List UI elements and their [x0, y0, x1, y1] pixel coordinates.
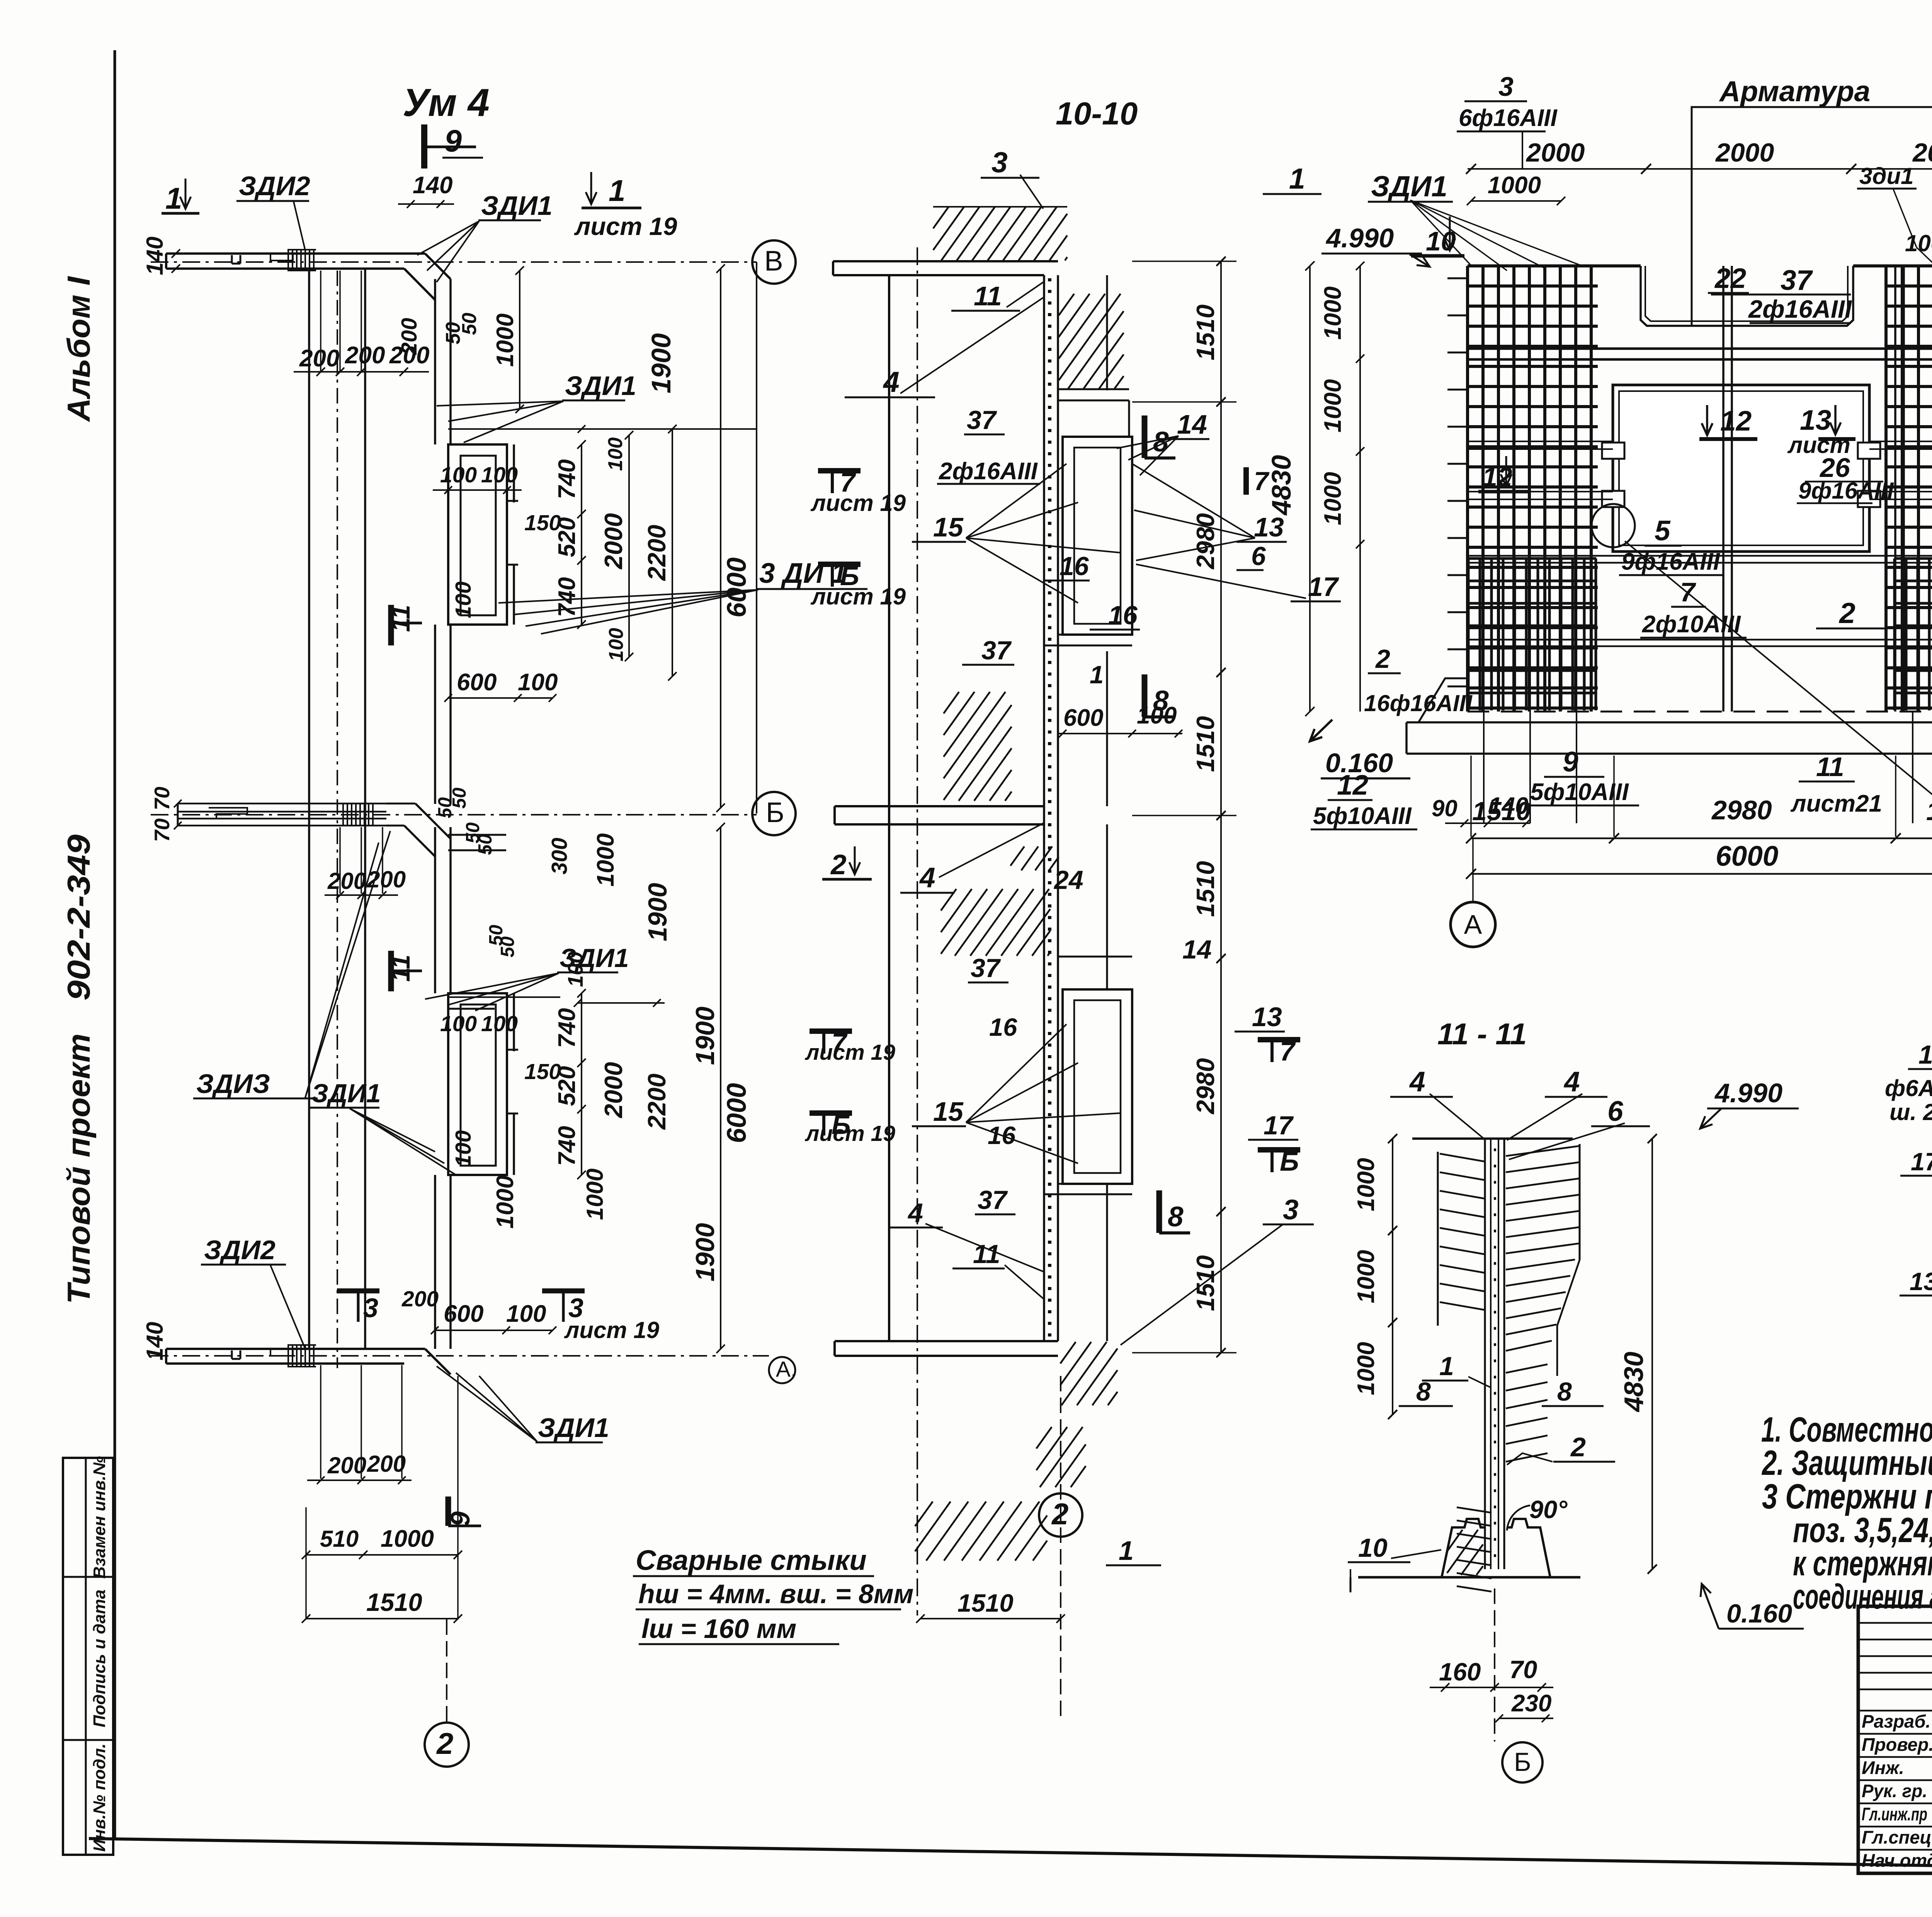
svg-text:2: 2 — [1838, 597, 1855, 629]
svg-text:2000: 2000 — [1715, 138, 1774, 167]
svg-text:ЗДИ1: ЗДИ1 — [481, 191, 553, 221]
svg-text:ЗДИ2: ЗДИ2 — [204, 1235, 276, 1265]
svg-text:100: 100 — [604, 438, 627, 471]
svg-text:ЗДИ2: ЗДИ2 — [239, 171, 310, 201]
svg-text:15: 15 — [933, 1096, 964, 1127]
svg-text:Разраб.: Разраб. — [1862, 1711, 1930, 1731]
svg-text:70: 70 — [150, 818, 174, 842]
svg-text:2ф16АIII: 2ф16АIII — [1748, 295, 1852, 323]
svg-text:100: 100 — [481, 463, 518, 487]
svg-text:16: 16 — [1060, 552, 1089, 581]
svg-text:Провер.: Провер. — [1862, 1734, 1932, 1755]
svg-text:200: 200 — [397, 318, 422, 355]
svg-text:1: 1 — [165, 181, 182, 215]
svg-text:9ф16АIII: 9ф16АIII — [1621, 548, 1721, 575]
svg-text:16: 16 — [988, 1121, 1016, 1149]
svg-text:2200: 2200 — [643, 525, 671, 582]
svg-text:2000: 2000 — [599, 513, 628, 570]
svg-text:7: 7 — [1680, 577, 1696, 607]
svg-text:740: 740 — [554, 577, 580, 617]
svg-text:Б: Б — [1514, 1747, 1531, 1777]
svg-text:14: 14 — [1918, 1040, 1932, 1069]
svg-text:200: 200 — [401, 1287, 439, 1311]
svg-text:hш = 4мм. вш. = 8мм: hш = 4мм. вш. = 8мм — [638, 1579, 913, 1609]
svg-text:100: 100 — [451, 581, 476, 618]
svg-text:лист 19: лист 19 — [810, 490, 906, 516]
svg-text:9: 9 — [444, 124, 462, 158]
svg-text:4: 4 — [883, 366, 900, 398]
svg-text:2: 2 — [1570, 1432, 1586, 1462]
svg-text:1510: 1510 — [1191, 861, 1219, 917]
svg-text:1000: 1000 — [381, 1525, 434, 1552]
svg-text:1: 1 — [1119, 1536, 1134, 1566]
svg-text:2980: 2980 — [1191, 1058, 1219, 1115]
svg-text:соединения арматуры-вязаные.: соединения арматуры-вязаные. — [1793, 1577, 1932, 1616]
svg-text:А: А — [1464, 909, 1482, 940]
svg-text:13: 13 — [1910, 1267, 1932, 1296]
svg-text:2ф16АIII: 2ф16АIII — [939, 458, 1038, 485]
svg-text:100: 100 — [440, 463, 477, 487]
svg-text:4: 4 — [919, 862, 935, 894]
svg-text:100: 100 — [605, 628, 628, 662]
svg-text:4: 4 — [1563, 1066, 1580, 1098]
svg-text:1000: 1000 — [492, 1175, 519, 1229]
svg-text:2. Защитный слой бетона - 20: 2. Защитный слой бетона - 20 мм. — [1761, 1444, 1932, 1483]
svg-text:140: 140 — [413, 172, 452, 199]
svg-text:9: 9 — [445, 1511, 475, 1526]
svg-text:6ф16АIII: 6ф16АIII — [1459, 105, 1558, 131]
svg-text:11: 11 — [1816, 752, 1844, 782]
svg-text:1510: 1510 — [957, 1589, 1014, 1617]
svg-text:2000: 2000 — [1912, 138, 1932, 167]
svg-text:Сварные стыки: Сварные стыки — [636, 1545, 867, 1576]
svg-text:1510: 1510 — [1191, 305, 1219, 361]
svg-text:13: 13 — [1800, 405, 1831, 436]
svg-text:лист 19: лист 19 — [804, 1040, 895, 1065]
svg-text:Подпись и дата: Подпись и дата — [90, 1590, 109, 1728]
svg-text:3ди1: 3ди1 — [1859, 163, 1913, 189]
svg-text:37: 37 — [967, 405, 997, 435]
svg-text:2980: 2980 — [1191, 513, 1219, 570]
svg-text:лист 19: лист 19 — [574, 212, 677, 240]
svg-text:200: 200 — [345, 342, 385, 369]
svg-text:ф6АIII: ф6АIII — [1885, 1075, 1932, 1101]
svg-text:37: 37 — [981, 636, 1012, 665]
svg-text:17: 17 — [1264, 1111, 1294, 1140]
svg-text:1000: 1000 — [1320, 379, 1346, 432]
svg-text:520: 520 — [554, 517, 580, 557]
svg-text:ЗДИ1: ЗДИ1 — [538, 1413, 609, 1443]
svg-text:3: 3 — [1283, 1194, 1299, 1226]
svg-text:1900: 1900 — [643, 883, 672, 941]
svg-text:100: 100 — [481, 1011, 518, 1036]
svg-text:100: 100 — [518, 669, 558, 696]
svg-text:2200: 2200 — [643, 1074, 671, 1130]
svg-text:100: 100 — [451, 1130, 476, 1167]
svg-text:230: 230 — [1511, 1690, 1551, 1717]
svg-text:13: 13 — [1254, 512, 1284, 542]
svg-text:Гл.инж.пр: Гл.инж.пр — [1862, 1804, 1927, 1824]
svg-text:Рук. гр.: Рук. гр. — [1862, 1781, 1927, 1801]
svg-text:24: 24 — [1053, 865, 1083, 895]
svg-text:50: 50 — [449, 788, 470, 809]
svg-text:13: 13 — [1252, 1002, 1282, 1032]
svg-text:50: 50 — [475, 834, 496, 855]
svg-text:2: 2 — [436, 1726, 453, 1760]
svg-text:2: 2 — [830, 849, 847, 880]
svg-text:740: 740 — [554, 1008, 580, 1048]
svg-text:1000: 1000 — [1320, 472, 1346, 525]
svg-text:1900: 1900 — [690, 1223, 720, 1281]
svg-text:ЗДИ1: ЗДИ1 — [311, 1079, 381, 1108]
svg-text:15: 15 — [933, 512, 964, 542]
svg-text:Ум 4: Ум 4 — [403, 81, 490, 124]
svg-text:22: 22 — [1714, 263, 1746, 294]
svg-text:37: 37 — [971, 953, 1001, 983]
svg-text:1000: 1000 — [1320, 286, 1346, 340]
svg-text:520: 520 — [554, 1066, 580, 1106]
svg-text:6000: 6000 — [721, 1083, 752, 1143]
svg-text:12: 12 — [1720, 405, 1752, 437]
svg-text:1000: 1000 — [1353, 1250, 1379, 1303]
svg-text:ш. 200: ш. 200 — [1889, 1099, 1932, 1125]
svg-text:1900: 1900 — [646, 333, 676, 393]
svg-text:В: В — [764, 245, 783, 277]
svg-text:9ф16АIII: 9ф16АIII — [1798, 478, 1894, 504]
svg-text:9: 9 — [1563, 746, 1578, 778]
svg-text:лист21: лист21 — [1790, 790, 1882, 817]
svg-text:Б: Б — [1280, 1146, 1299, 1176]
svg-text:2000: 2000 — [1526, 138, 1585, 167]
svg-text:2: 2 — [1051, 1497, 1068, 1531]
svg-text:Гл.спец: Гл.спец — [1862, 1827, 1932, 1847]
svg-text:1: 1 — [1289, 162, 1305, 195]
svg-text:1510: 1510 — [366, 1588, 422, 1616]
svg-text:ЗДИ1: ЗДИ1 — [1371, 170, 1447, 203]
svg-text:3: 3 — [992, 146, 1008, 179]
svg-text:1000: 1000 — [1353, 1342, 1379, 1395]
svg-text:200: 200 — [327, 1452, 366, 1478]
svg-text:4: 4 — [907, 1198, 923, 1228]
svg-text:1000: 1000 — [1353, 1158, 1379, 1211]
svg-text:А.: А. — [776, 1357, 797, 1382]
svg-text:0.160: 0.160 — [1325, 748, 1393, 778]
svg-text:1900: 1900 — [690, 1006, 720, 1065]
svg-text:740: 740 — [554, 459, 580, 499]
svg-text:2: 2 — [1375, 644, 1390, 674]
svg-text:100: 100 — [506, 1301, 546, 1327]
svg-text:17: 17 — [1308, 572, 1339, 602]
svg-text:140: 140 — [142, 237, 168, 275]
svg-text:8: 8 — [1168, 1201, 1184, 1233]
svg-text:90: 90 — [1432, 795, 1458, 821]
svg-text:11: 11 — [386, 955, 415, 982]
svg-text:ЗДИ1: ЗДИ1 — [565, 371, 636, 401]
svg-text:лист 19: лист 19 — [564, 1317, 660, 1343]
svg-text:3: 3 — [1498, 72, 1514, 102]
svg-text:12: 12 — [1482, 462, 1512, 492]
svg-text:11: 11 — [973, 1239, 1000, 1269]
svg-text:50: 50 — [458, 313, 481, 335]
svg-text:1510: 1510 — [1472, 797, 1531, 826]
svg-text:10: 10 — [1358, 1533, 1388, 1563]
svg-text:4830: 4830 — [1266, 455, 1296, 516]
svg-text:17: 17 — [1911, 1147, 1932, 1176]
svg-text:Б: Б — [766, 797, 784, 828]
svg-text:37: 37 — [978, 1185, 1008, 1215]
svg-text:16: 16 — [989, 1013, 1017, 1041]
svg-text:510: 510 — [320, 1526, 359, 1552]
svg-text:1: 1 — [1090, 661, 1104, 689]
svg-text:4: 4 — [1409, 1066, 1425, 1098]
svg-text:600: 600 — [444, 1301, 483, 1327]
svg-text:11: 11 — [974, 281, 1002, 311]
svg-text:100: 100 — [1137, 702, 1177, 729]
svg-text:200: 200 — [367, 1451, 406, 1477]
svg-text:Инж.: Инж. — [1862, 1757, 1904, 1778]
svg-text:6: 6 — [1607, 1096, 1623, 1127]
svg-text:14: 14 — [1177, 409, 1207, 439]
svg-text:ЗДИ1: ЗДИ1 — [560, 943, 629, 973]
svg-text:140: 140 — [142, 1322, 168, 1360]
svg-text:1000: 1000 — [592, 833, 619, 887]
svg-text:70: 70 — [150, 787, 174, 810]
svg-text:8: 8 — [1557, 1377, 1572, 1406]
svg-text:100: 100 — [440, 1011, 477, 1036]
svg-text:1000: 1000 — [582, 1168, 608, 1220]
svg-text:8: 8 — [1416, 1377, 1431, 1406]
svg-text:7: 7 — [1280, 1036, 1296, 1066]
svg-text:50: 50 — [497, 936, 518, 958]
svg-text:Типовой проект: Типовой проект — [61, 1033, 97, 1304]
svg-text:Инв.№ подл.: Инв.№ подл. — [90, 1743, 109, 1852]
svg-text:1: 1 — [609, 174, 625, 208]
svg-text:Взамен инв.№: Взамен инв.№ — [90, 1456, 109, 1578]
svg-text:4830: 4830 — [1619, 1352, 1649, 1413]
svg-text:Арматура: Арматура — [1719, 75, 1870, 107]
svg-text:160: 160 — [1439, 1658, 1481, 1686]
svg-text:5ф10АIII: 5ф10АIII — [1313, 803, 1412, 829]
svg-text:лист 19: лист 19 — [810, 584, 906, 609]
svg-text:lш = 160 мм: lш = 160 мм — [641, 1614, 796, 1644]
svg-text:902-2-349: 902-2-349 — [61, 834, 97, 1001]
svg-text:1000: 1000 — [1488, 172, 1541, 199]
svg-text:90°: 90° — [1529, 1495, 1568, 1524]
svg-text:Нач.отд: Нач.отд — [1862, 1850, 1932, 1871]
svg-text:37: 37 — [1781, 265, 1813, 296]
svg-text:2000: 2000 — [599, 1062, 628, 1119]
svg-text:0.160: 0.160 — [1726, 1599, 1792, 1628]
svg-text:1510: 1510 — [1191, 716, 1219, 772]
svg-text:6000: 6000 — [721, 557, 752, 618]
svg-text:2980: 2980 — [1711, 795, 1772, 825]
svg-text:3 Стержни поз. 11 приварить: 3 Стержни поз. 11 приварить к стержням — [1762, 1477, 1932, 1516]
svg-text:11 - 11: 11 - 11 — [1437, 1017, 1527, 1051]
svg-text:11: 11 — [386, 605, 415, 632]
svg-text:1510: 1510 — [1926, 797, 1932, 826]
svg-text:5: 5 — [1655, 515, 1671, 546]
svg-text:6000: 6000 — [1716, 841, 1778, 872]
svg-text:1: 1 — [1439, 1352, 1454, 1381]
svg-text:300: 300 — [547, 838, 572, 874]
svg-text:10-10: 10-10 — [1056, 95, 1138, 131]
svg-text:3: 3 — [363, 1293, 378, 1323]
svg-text:1000: 1000 — [1905, 230, 1932, 256]
svg-text:ЗДИЗ: ЗДИЗ — [196, 1069, 270, 1099]
svg-text:70: 70 — [1509, 1655, 1537, 1684]
svg-text:8: 8 — [1153, 426, 1169, 458]
svg-text:600: 600 — [1063, 705, 1103, 731]
svg-text:600: 600 — [457, 669, 497, 696]
svg-text:4.990: 4.990 — [1325, 223, 1394, 253]
svg-text:1510: 1510 — [1191, 1255, 1219, 1311]
svg-text:4.990: 4.990 — [1714, 1078, 1782, 1108]
svg-text:Альбом I: Альбом I — [61, 276, 97, 422]
svg-text:14: 14 — [1182, 935, 1212, 964]
svg-text:10: 10 — [1426, 226, 1456, 256]
svg-text:16: 16 — [1108, 601, 1138, 630]
svg-text:лист 19: лист 19 — [804, 1121, 895, 1146]
svg-text:6: 6 — [1251, 541, 1266, 571]
svg-text:16ф16АIII: 16ф16АIII — [1364, 690, 1473, 716]
svg-text:200: 200 — [327, 868, 366, 894]
svg-text:1000: 1000 — [492, 313, 519, 367]
svg-text:740: 740 — [554, 1126, 580, 1166]
svg-text:200: 200 — [299, 345, 339, 372]
